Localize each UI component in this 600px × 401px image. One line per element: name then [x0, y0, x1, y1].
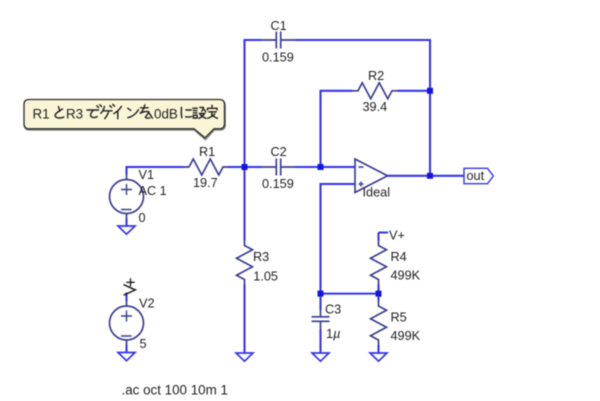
voltage source V2 lead stubs: [126, 301, 128, 345]
resistor R4: [371, 241, 387, 285]
wire: feedback vertical and R2 row left: [321, 91, 353, 167]
capacitor C3: [312, 310, 330, 330]
voltage source V1 lead stubs: [126, 175, 128, 219]
op-amp U1: [355, 159, 388, 193]
wire: R4 bottom to junction: [377, 285, 379, 294]
svg-text:1µ: 1µ: [326, 327, 340, 341]
capacitor C2: [262, 159, 296, 176]
ground below R3: [236, 353, 253, 361]
wire: V2 bottom to ground: [125, 345, 127, 353]
ground below V1: [118, 226, 135, 234]
svg-text:AC 1: AC 1: [139, 184, 167, 198]
annotation glyph ge: [101, 104, 115, 118]
node junction at C3 top: [318, 291, 324, 297]
svg-text:R1: R1: [33, 107, 50, 122]
wire: left vertical up and top row left: [245, 40, 262, 167]
wire: V+ flag to V2 top: [125, 293, 127, 302]
annotation glyph to: [55, 107, 64, 119]
svg-text:0: 0: [139, 211, 146, 225]
svg-text:39.4: 39.4: [363, 100, 388, 114]
ground below R5: [370, 353, 387, 361]
svg-text:C2: C2: [271, 145, 287, 159]
annotation glyph setsu: [193, 108, 206, 119]
ground below V2: [118, 353, 135, 361]
node junction at R2 right: [427, 88, 433, 94]
wire: R1 to C2 left: [228, 166, 262, 168]
svg-text:R3: R3: [253, 250, 269, 264]
wire: top row right and right vertical: [296, 40, 431, 176]
svg-text:R1: R1: [199, 145, 215, 159]
resistor R1: [184, 159, 229, 175]
annotation glyph n: [128, 108, 139, 117]
annotation bubble: [24, 100, 225, 138]
svg-text:V+: V+: [389, 229, 405, 243]
wire: junction down to R3: [243, 167, 245, 241]
svg-text:.ac oct 100 10m 1: .ac oct 100 10m 1: [122, 383, 228, 398]
svg-text:R3: R3: [66, 107, 83, 122]
wire: C2 right to op-amp inverting input: [296, 166, 356, 168]
net label V+ (at V2, rotated): [124, 285, 136, 296]
wire: R3 to ground: [243, 285, 245, 354]
ground below C3: [312, 353, 329, 361]
resistor R5: [371, 301, 387, 345]
svg-text:out: out: [467, 169, 485, 183]
wire: V+ flag to R4 top: [379, 233, 389, 241]
voltage source V1: [110, 180, 144, 214]
wire: op-amp output to out port: [388, 175, 465, 177]
wire: R2 right to right vertical: [398, 90, 431, 92]
svg-text:0dB: 0dB: [154, 107, 178, 122]
annotation glyph ni: [181, 107, 191, 118]
svg-text:19.7: 19.7: [193, 176, 218, 190]
svg-text:R2: R2: [368, 69, 384, 83]
svg-text:0.159: 0.159: [262, 51, 294, 65]
svg-text:Ideal: Ideal: [363, 186, 391, 200]
wire: junction to C3 top: [319, 294, 321, 310]
annotation glyph i: [114, 106, 122, 119]
wire: non-inverting input down to bias row: [321, 184, 379, 294]
resistor R3: [237, 241, 253, 285]
annotation glyph de: [87, 105, 102, 118]
wire: V1 stem and input row to R1: [127, 167, 184, 175]
node junction at R1/C2/R3: [242, 164, 248, 170]
output port flag out: [464, 168, 493, 183]
voltage source V2: [110, 306, 144, 340]
capacitor C1: [262, 32, 296, 49]
node junction at C2/op-amp inverting input: [318, 164, 324, 170]
svg-text:C3: C3: [325, 303, 341, 317]
svg-text:1.05: 1.05: [253, 270, 278, 284]
node junction at R4/R5 divider: [376, 291, 382, 297]
wire: junction to R5 top: [377, 294, 379, 301]
svg-text:V2: V2: [139, 297, 155, 311]
svg-text:499K: 499K: [391, 269, 421, 283]
svg-text:C1: C1: [271, 19, 287, 33]
svg-text:0.159: 0.159: [262, 177, 294, 191]
svg-text:5: 5: [140, 337, 147, 351]
annotation glyph wo: [140, 105, 152, 118]
svg-text:499K: 499K: [391, 329, 421, 343]
svg-text:V1: V1: [139, 168, 155, 182]
annotation bubble shadow: [25, 101, 226, 140]
wire: C3 bottom to ground: [319, 330, 321, 354]
annotation glyph tei: [208, 105, 218, 118]
resistor R2: [353, 83, 398, 99]
svg-text:R4: R4: [391, 250, 407, 264]
wire: V1 bottom to ground: [125, 219, 127, 227]
svg-text:R5: R5: [391, 311, 407, 325]
node junction at op-amp output: [427, 173, 433, 179]
wire: R5 bottom to ground: [377, 345, 379, 353]
